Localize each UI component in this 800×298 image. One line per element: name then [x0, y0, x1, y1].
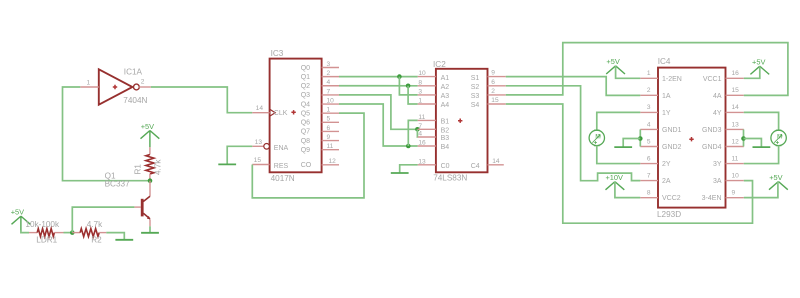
- svg-text:VCC1: VCC1: [703, 76, 722, 83]
- svg-text:R1: R1: [134, 164, 143, 175]
- junction Q2-A4 tap: [406, 84, 411, 89]
- svg-text:3: 3: [418, 89, 422, 96]
- ground right of R2: [115, 239, 133, 241]
- svg-text:3: 3: [647, 104, 651, 111]
- IC2 pin number 15: [491, 97, 499, 104]
- svg-text:GND1: GND1: [662, 127, 682, 134]
- IC4 pin 6 stub: [640, 163, 658, 165]
- wire GND1-GND2 tie: [639, 129, 641, 146]
- IC2 pin S3 stub: [488, 94, 506, 96]
- IC3 pin Q3 stub: [322, 94, 339, 96]
- label LDR1: [36, 236, 57, 245]
- IC U4: driver IC4 L293D box: [658, 68, 726, 208]
- svg-text:A4: A4: [441, 102, 450, 109]
- IC4 pin 9 stub: [726, 197, 744, 199]
- IC4 label 2A: [662, 178, 671, 185]
- IC2 label B1: [441, 119, 450, 126]
- wire IC1A input to node Q1-collector: [63, 87, 151, 181]
- svg-text:1: 1: [327, 107, 331, 114]
- IC3 pin Q0 stub: [322, 67, 339, 69]
- svg-text:4: 4: [647, 121, 651, 128]
- svg-text:6: 6: [491, 79, 495, 86]
- svg-text:S4: S4: [471, 102, 480, 109]
- label 4.7k R1 (rotated): [154, 159, 163, 175]
- IC4 pin number 1: [647, 70, 651, 77]
- svg-text:+5V: +5V: [769, 173, 782, 182]
- svg-text:Q3: Q3: [301, 92, 310, 99]
- IC4 pin number 3: [647, 104, 651, 111]
- supply +5V above LDR1: [11, 208, 31, 232]
- IC2 pin B4 stub: [418, 145, 436, 147]
- svg-text:1: 1: [647, 70, 651, 77]
- wire IC2 C0 to ground: [400, 165, 418, 173]
- svg-text:11: 11: [732, 155, 739, 162]
- IC4 pin 4 stub: [640, 128, 658, 130]
- supply +5V at VCC1: [750, 58, 769, 75]
- IC3 label Q8: [301, 138, 310, 145]
- IC2 pin S4 stub: [488, 103, 506, 105]
- IC2 pin number 13: [418, 158, 426, 165]
- svg-text:Q0: Q0: [301, 65, 310, 72]
- IC4 pin number 12: [732, 138, 740, 145]
- svg-text:8: 8: [418, 79, 422, 86]
- svg-text:7: 7: [418, 123, 422, 130]
- svg-text:2: 2: [491, 88, 495, 95]
- junction Q3-B3 tap: [415, 127, 420, 132]
- IC3 pin number 11: [327, 143, 334, 150]
- label 74LS83N: [433, 173, 467, 182]
- svg-text:5: 5: [647, 138, 651, 145]
- IC3 pin number 15: [254, 157, 262, 164]
- svg-text:4A: 4A: [713, 93, 722, 100]
- IC4 pin 15 stub: [726, 94, 744, 96]
- svg-text:4.7k: 4.7k: [87, 220, 103, 229]
- IC2 pin A2 stub: [418, 85, 436, 87]
- wire S4 to 3A bottom loop: [506, 104, 753, 223]
- svg-text:12: 12: [329, 158, 337, 165]
- IC2 pin number 1: [418, 98, 422, 105]
- IC2 pin number 16: [418, 140, 426, 147]
- label Q1: [105, 172, 116, 181]
- svg-text:4Y: 4Y: [713, 110, 722, 117]
- wire S1 to 1A: [506, 77, 641, 96]
- IC2 pin number 6: [491, 79, 495, 86]
- resistor LDR1: [37, 229, 54, 237]
- svg-text:8: 8: [647, 189, 651, 196]
- label IC4: [658, 57, 671, 66]
- svg-text:A1: A1: [441, 75, 450, 82]
- IC3 label RES: [274, 163, 289, 170]
- svg-text:+10V: +10V: [605, 173, 623, 182]
- svg-text:R2: R2: [91, 236, 102, 245]
- svg-text:4017N: 4017N: [271, 174, 295, 183]
- IC3 pin 15 RES stub: [252, 164, 269, 166]
- wire VCC1 to +5V: [744, 66, 760, 78]
- svg-text:4: 4: [327, 79, 331, 86]
- IC2 label C4: [471, 163, 480, 170]
- IC3 ENA bubble: [264, 144, 270, 150]
- svg-text:10: 10: [327, 97, 335, 104]
- wire motor M2 bottom to 3Y: [744, 146, 779, 164]
- IC3 label Q4: [301, 101, 310, 108]
- wire GND tie to ground left: [623, 139, 640, 147]
- wire 1Y to motor M1 top: [597, 112, 641, 130]
- junction node divider-base: [70, 230, 75, 235]
- IC3 pin number 14: [256, 105, 264, 112]
- IC1A pin number 2: [141, 78, 145, 85]
- IC4 label VCC2: [662, 195, 681, 202]
- junction GND3-4: [741, 136, 746, 141]
- IC4 label 3-4EN: [702, 195, 722, 202]
- wire Q3 to B2: [339, 95, 418, 129]
- IC1A pin number 1: [87, 80, 91, 87]
- wire Q1 tap to A3: [399, 77, 417, 95]
- svg-text:B1: B1: [441, 119, 450, 126]
- label IC3: [271, 49, 284, 58]
- IC3 label Q9: [301, 147, 310, 154]
- IC3 pin number 12: [329, 158, 337, 165]
- wire +10V to VCC2 pin8: [615, 182, 640, 198]
- IC2 label S3: [471, 93, 480, 100]
- svg-text:2Y: 2Y: [662, 161, 671, 168]
- svg-text:7: 7: [647, 172, 651, 179]
- IC3 label Q3: [301, 92, 310, 99]
- IC4 label 1Y: [662, 110, 671, 117]
- IC1A pin 1 stub: [80, 86, 99, 88]
- svg-text:13: 13: [732, 121, 740, 128]
- svg-text:IC4: IC4: [658, 57, 671, 66]
- svg-text:10: 10: [418, 70, 426, 77]
- svg-text:Q6: Q6: [301, 120, 310, 127]
- svg-text:1: 1: [87, 80, 91, 87]
- svg-text:10k-100k: 10k-100k: [25, 220, 60, 229]
- svg-text:B2: B2: [441, 128, 450, 135]
- IC2 pin number 3: [418, 89, 422, 96]
- IC3 pin Q1 stub: [322, 76, 339, 78]
- IC4 label GND1: [662, 127, 682, 134]
- label R1 (rotated): [134, 164, 143, 175]
- IC1A plus mark: [113, 85, 117, 89]
- IC3 label Q2: [301, 83, 310, 90]
- IC3 label ENA: [274, 145, 289, 152]
- svg-text:13: 13: [255, 139, 263, 146]
- ground at IC4 right: [753, 146, 771, 148]
- wire IC3 RES to Q5: [252, 113, 364, 198]
- svg-text:B3: B3: [441, 135, 450, 142]
- svg-text:GND2: GND2: [662, 144, 682, 151]
- IC4 label 1A: [662, 93, 671, 100]
- IC2 pin number 9: [491, 70, 495, 77]
- wire 4Y to motor M2 top: [744, 112, 779, 130]
- IC2 label C0: [441, 163, 450, 170]
- wire IC3 ENA to ground: [227, 146, 252, 164]
- svg-text:6: 6: [647, 155, 651, 162]
- IC2 label S4: [471, 102, 480, 109]
- supply +5V at IC4 pin1: [606, 57, 625, 74]
- IC3 pin Q9 stub: [322, 149, 339, 151]
- ground below IC2 C0: [391, 172, 409, 174]
- IC4 pin 5 stub: [640, 146, 658, 148]
- svg-text:9: 9: [491, 70, 495, 77]
- IC4 pin number 4: [647, 121, 651, 128]
- label L293D: [657, 210, 681, 219]
- IC3 pin Q5 stub: [322, 112, 339, 114]
- motor M2: [771, 130, 786, 145]
- IC4 plus mark: [689, 137, 693, 141]
- supply +5V at 3-4EN: [769, 173, 788, 190]
- IC4 pin number 2: [647, 87, 651, 94]
- wire 3-4EN to +5V: [744, 182, 778, 198]
- IC3 pin 13 ENA stub: [252, 145, 263, 147]
- svg-text:7: 7: [327, 88, 331, 95]
- LDR1 right pin: [54, 232, 63, 234]
- svg-text:+5V: +5V: [141, 122, 154, 131]
- svg-text:14: 14: [732, 104, 740, 111]
- IC4 label GND2: [662, 144, 682, 151]
- svg-text:+5V: +5V: [752, 58, 765, 67]
- Q1 base pin stub: [134, 206, 141, 208]
- IC2 pin number 10: [418, 70, 426, 77]
- svg-text:Q4: Q4: [301, 101, 310, 108]
- wire S2 to 2A: [506, 86, 641, 181]
- IC4 pin number 10: [732, 172, 740, 179]
- svg-text:CO: CO: [301, 162, 312, 169]
- IC U2: adder IC2 74LS83N box: [436, 69, 488, 173]
- IC2 pin number 8: [418, 79, 422, 86]
- wire Q2 tap to A4: [408, 86, 418, 104]
- IC4 label 3Y: [713, 161, 722, 168]
- IC4 pin 16 stub: [726, 77, 744, 79]
- IC4 pin number 6: [647, 155, 651, 162]
- svg-text:2: 2: [141, 78, 145, 85]
- IC3 label CO: [301, 162, 312, 169]
- IC2 pin A1 stub: [418, 76, 436, 78]
- IC2 pin number 7: [418, 123, 422, 130]
- IC3 pin Q7 stub: [322, 130, 339, 132]
- svg-text:11: 11: [327, 143, 334, 150]
- IC1A pin 2 stub: [139, 86, 151, 88]
- IC3 label Q1: [301, 74, 310, 81]
- svg-text:Q9: Q9: [301, 147, 310, 154]
- junction Q4-B1 tap: [406, 144, 411, 149]
- IC4 pin 7 stub: [640, 180, 658, 182]
- wire LDR1 to node base-divider: [64, 232, 73, 234]
- ground below Q1 emitter: [141, 232, 159, 234]
- IC4 label 2Y: [662, 161, 671, 168]
- IC4 pin number 7: [647, 172, 651, 179]
- wire Q4 tap to B1: [408, 120, 417, 146]
- IC4 pin 14 stub: [726, 111, 744, 113]
- IC4 label 4A: [713, 93, 722, 100]
- svg-text:14: 14: [256, 105, 264, 112]
- IC3 label Q7: [301, 129, 310, 136]
- ground at IC4 left: [614, 146, 632, 148]
- svg-text:4.7k: 4.7k: [154, 159, 163, 175]
- svg-text:S2: S2: [471, 84, 480, 91]
- label 4017N: [271, 174, 295, 183]
- IC2 pin C0 stub: [418, 164, 436, 166]
- svg-text:3A: 3A: [713, 178, 722, 185]
- IC4 pin number 13: [732, 121, 740, 128]
- LDR1 left pin: [29, 232, 37, 234]
- svg-text:VCC2: VCC2: [662, 195, 681, 202]
- IC3 pin Q6 stub: [322, 121, 339, 123]
- IC4 pin 1 stub: [640, 77, 658, 79]
- IC2 pin C4 stub: [488, 164, 504, 166]
- IC2 pin number 14: [492, 158, 500, 165]
- svg-text:74LS83N: 74LS83N: [433, 173, 467, 182]
- IC3 pin Q4 stub: [322, 103, 339, 105]
- IC2 pin B3 stub: [418, 136, 436, 138]
- svg-text:+5V: +5V: [606, 57, 619, 66]
- wire motor M1 bottom to 2Y: [597, 146, 641, 164]
- IC4 pin number 9: [732, 189, 736, 196]
- IC4 label 3A: [713, 178, 722, 185]
- junction GND1-2: [638, 136, 643, 141]
- svg-text:S3: S3: [471, 93, 480, 100]
- IC4 pin 13 stub: [726, 128, 744, 130]
- IC3 pin number 7: [327, 88, 331, 95]
- IC3 label Q6: [301, 120, 310, 127]
- svg-text:11: 11: [418, 114, 425, 121]
- wire node to Q1 base: [72, 207, 134, 233]
- svg-text:3-4EN: 3-4EN: [702, 195, 722, 202]
- IC2 pin number 2: [491, 88, 495, 95]
- wire Q2 to A2: [339, 85, 418, 87]
- IC2 pin B2 stub: [418, 128, 436, 130]
- IC3 plus mark: [291, 110, 295, 114]
- wire S3 to 4A top loop: [506, 43, 788, 96]
- IC4 pin number 15: [732, 87, 740, 94]
- IC2 pin S1 stub: [488, 76, 506, 78]
- IC4 pin number 14: [732, 104, 740, 111]
- label BC337: [105, 180, 130, 189]
- wire Q3 tap to B3: [416, 129, 418, 137]
- label 7404N: [123, 96, 147, 105]
- svg-text:+5V: +5V: [11, 208, 24, 217]
- IC2 pin A3 stub: [418, 94, 436, 96]
- svg-text:1: 1: [418, 98, 422, 105]
- svg-text:LDR1: LDR1: [36, 236, 57, 245]
- wire R2 to ground: [106, 233, 124, 240]
- IC U3: counter IC3 4017N box: [270, 59, 322, 173]
- IC4 pin 3 stub: [640, 111, 658, 113]
- IC3 pin number 3: [327, 61, 331, 68]
- svg-text:15: 15: [732, 87, 740, 94]
- motor M1: [589, 130, 604, 145]
- label IC2: [433, 60, 446, 69]
- IC4 pin 10 stub: [726, 180, 744, 182]
- IC3 pin number 2: [327, 70, 331, 77]
- IC4 label GND3: [702, 127, 722, 134]
- svg-text:2: 2: [647, 87, 651, 94]
- resistor R2 right pin: [99, 232, 106, 234]
- svg-text:B4: B4: [441, 144, 450, 151]
- IC4 pin 8 stub: [640, 197, 658, 199]
- IC4 pin number 8: [647, 189, 651, 196]
- svg-text:12: 12: [732, 138, 740, 145]
- svg-text:IC1A: IC1A: [124, 68, 143, 77]
- IC3 pin number 6: [327, 125, 331, 132]
- wire Q4 to B4: [339, 104, 418, 146]
- svg-text:S1: S1: [471, 75, 480, 82]
- svg-text:L293D: L293D: [657, 210, 681, 219]
- IC2 label A2: [441, 84, 450, 91]
- supply +5V above R1: [141, 122, 160, 147]
- svg-text:9: 9: [327, 134, 331, 141]
- label 10k-100k: [25, 220, 60, 229]
- svg-text:16: 16: [732, 70, 740, 77]
- IC2 pin A4 stub: [418, 103, 436, 105]
- IC2 label S1: [471, 75, 480, 82]
- svg-text:1-2EN: 1-2EN: [662, 76, 682, 83]
- junction node collector-R1-IC1A: [148, 178, 153, 183]
- svg-text:CLK: CLK: [274, 110, 288, 117]
- IC4 label GND4: [702, 144, 722, 151]
- ground below IC3 ENA: [218, 163, 236, 165]
- svg-text:Q1: Q1: [301, 74, 310, 81]
- svg-text:Q2: Q2: [301, 83, 310, 90]
- IC4 label 1-2EN: [662, 76, 682, 83]
- svg-text:GND3: GND3: [702, 127, 722, 134]
- resistor R1 bottom pin: [149, 174, 151, 181]
- svg-text:ENA: ENA: [274, 145, 289, 152]
- wire GND tie to ground right: [744, 139, 762, 147]
- svg-text:10: 10: [732, 172, 740, 179]
- IC3 label Q0: [301, 65, 310, 72]
- wire Q1 emitter to ground: [149, 226, 151, 233]
- IC3 pin number 10: [327, 97, 335, 104]
- svg-text:3: 3: [327, 61, 331, 68]
- IC2 pin S2 stub: [488, 85, 506, 87]
- IC2 label B2: [441, 128, 450, 135]
- IC3 pin Q8 stub: [322, 140, 339, 142]
- wire +5V to pin1: [616, 66, 641, 79]
- svg-text:Q5: Q5: [301, 110, 310, 117]
- IC4 label VCC1: [703, 76, 722, 83]
- IC2 label A1: [441, 75, 450, 82]
- resistor R2: [80, 229, 99, 237]
- IC4 pin number 16: [732, 70, 740, 77]
- label IC1A: [124, 68, 143, 77]
- IC2 pin B1 stub: [418, 119, 436, 121]
- transistor Q1 BC337: [142, 181, 150, 227]
- label 4.7k R2: [87, 220, 103, 229]
- IC4 pin number 11: [732, 155, 739, 162]
- resistor R1: [146, 155, 154, 175]
- svg-text:BC337: BC337: [105, 180, 130, 189]
- IC2 label B3: [441, 135, 450, 142]
- IC2 label A4: [441, 102, 450, 109]
- svg-text:13: 13: [418, 158, 426, 165]
- IC4 label 4Y: [713, 110, 722, 117]
- IC4 pin 12 stub: [726, 146, 744, 148]
- IC2 plus mark: [458, 119, 462, 123]
- IC3 label CLK: [274, 110, 288, 117]
- svg-text:4: 4: [418, 131, 422, 138]
- svg-text:IC3: IC3: [271, 49, 284, 58]
- svg-text:2: 2: [327, 70, 331, 77]
- IC2 pin number 11: [418, 114, 425, 121]
- IC3 pin 14 CLK stub: [252, 112, 269, 114]
- IC2 label A3: [441, 93, 450, 100]
- svg-text:3Y: 3Y: [713, 161, 722, 168]
- IC3 pin number 13: [255, 139, 263, 146]
- svg-text:9: 9: [732, 189, 736, 196]
- IC3 pin Q2 stub: [322, 85, 339, 87]
- wire +5V to LDR1: [21, 230, 29, 233]
- svg-text:IC2: IC2: [433, 60, 446, 69]
